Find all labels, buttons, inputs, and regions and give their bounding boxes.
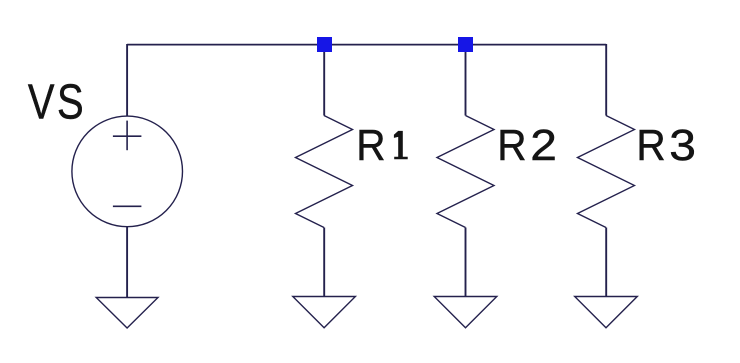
label R2 xyxy=(497,120,557,169)
svg-text:R: R xyxy=(497,120,526,169)
wire: R3 bottom lead xyxy=(605,228,607,297)
ground under R2 xyxy=(434,297,497,328)
wire: VS bottom lead xyxy=(126,227,128,298)
wire: R3 top lead (corner of bus) xyxy=(605,44,607,116)
svg-text:3: 3 xyxy=(669,121,696,170)
wire: VS top lead xyxy=(126,44,128,116)
label R1 xyxy=(356,120,407,169)
ground under R1 xyxy=(293,297,356,328)
voltage source VS (circle with plus and minus) xyxy=(72,116,183,227)
wire: R2 bottom lead xyxy=(465,228,467,297)
label R3 xyxy=(636,120,696,169)
resistor R2 (zigzag) xyxy=(437,116,494,228)
svg-text:VS: VS xyxy=(28,76,86,130)
wire: top bus from VS to R3 corner xyxy=(127,44,606,46)
junction node (blue square) on bus at R2 xyxy=(458,37,473,52)
wire: R2 top lead xyxy=(465,44,467,116)
svg-text:R: R xyxy=(356,120,385,169)
resistor R3 (zigzag) xyxy=(578,116,635,228)
junction node (blue square) on bus at R1 xyxy=(317,37,332,52)
ground under R3 xyxy=(575,297,638,328)
resistor R1 (zigzag) xyxy=(296,116,353,228)
wire: R1 bottom lead xyxy=(323,228,325,297)
ground under VS xyxy=(96,298,158,329)
wire: R1 top lead xyxy=(323,44,325,116)
svg-text:2: 2 xyxy=(530,121,557,170)
svg-text:R: R xyxy=(636,120,665,169)
